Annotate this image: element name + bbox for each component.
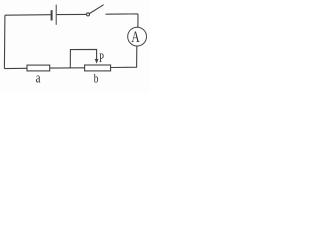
switch S1 blade: [89, 5, 103, 14]
resistor a body: [27, 65, 50, 71]
svg-text:A: A: [131, 28, 139, 45]
svg-text:a: a: [36, 70, 41, 86]
label a: [36, 70, 41, 86]
ammeter A1 circle: [128, 27, 147, 46]
wiper connection wire: [70, 49, 96, 68]
svg-text:b: b: [94, 72, 99, 86]
wire right vertical to ammeter: [137, 14, 139, 27]
battery cell B1 negative plate (short thick): [51, 10, 53, 20]
background: [0, 0, 150, 93]
wire top-left horizontal: [5, 14, 51, 17]
wire battery to switch: [57, 13, 87, 15]
battery cell B1 positive plate (long thin): [55, 5, 57, 25]
switch S1 pivot circle: [87, 13, 90, 16]
wiper arrowhead P: [95, 59, 99, 64]
wire switch to top-right corner: [106, 13, 139, 15]
wire left vertical: [3, 15, 6, 68]
rheostat b body: [85, 65, 111, 71]
ammeter label A: [131, 28, 139, 45]
wire resistor a to rheostat b: [50, 67, 85, 69]
svg-text:P: P: [99, 51, 104, 65]
wire bottom-left horizontal: [4, 67, 27, 69]
label b: [94, 72, 99, 86]
label P: [99, 51, 104, 65]
wire ammeter bottom to rheostat: [111, 46, 137, 68]
